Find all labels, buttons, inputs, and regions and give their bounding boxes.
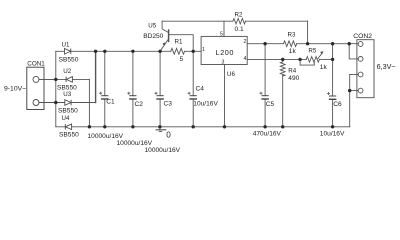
junction R4 minus rail [281,125,284,128]
svg-text:C6: C6 [333,101,342,108]
svg-text:U3: U3 [63,91,71,98]
wire L200 pin4 row (to R5) [247,58,306,60]
wire main rail R1 to L200 pin 1 [185,50,201,52]
capacitor C5 top leg [264,44,266,96]
wire U2 row (CON1 pin 1 to diode to corner) [39,78,89,80]
resistor R1 zigzag [171,48,185,54]
diode U1 triangle and bar [65,49,71,55]
junction C3 emitter main rail [158,50,161,53]
resistor R4 zigzag vertical [280,62,285,76]
junction CON2 pin4 branch [348,89,351,92]
svg-text:BD250: BD250 [143,33,163,40]
wire output vertical through C6 top [332,44,334,96]
connector CON2 pin 2 circle [358,57,363,62]
capacitor C1 plates [101,95,108,97]
junction C5 output row [263,42,266,45]
svg-text:3: 3 [222,60,225,66]
svg-text:U6: U6 [227,71,235,78]
ground stub below rail [159,127,161,130]
wire CON2 lower branch vertical to minus rail [349,75,351,127]
svg-text:R2: R2 [235,12,243,19]
svg-text:1k: 1k [320,64,328,71]
diode U3 triangle and bar [65,100,71,106]
svg-text:R1: R1 [175,38,183,45]
junction pin3 minus rail [223,125,226,128]
junction R4 pin4 row [281,58,284,61]
svg-text:U1: U1 [62,42,70,49]
wire vertical drop from top rail to output node [307,21,309,44]
capacitor C2 plates [129,95,136,97]
capacitor C3 top leg [159,51,161,95]
svg-text:CON2: CON2 [353,33,372,40]
svg-text:10u/16V: 10u/16V [320,131,345,138]
svg-text:2: 2 [244,39,247,45]
junction C2 minus rail [131,125,134,128]
wire R5 right terminal to output vertical [319,58,332,60]
IC U6 L200 box [201,36,247,64]
wire left AC vertical [55,51,57,126]
wire CON2 pin4 stub [350,90,359,92]
capacitor C2 top leg [132,51,134,95]
svg-text:470u/16V: 470u/16V [253,131,282,138]
capacitor C1 bottom leg [104,99,106,127]
junction top rail drop output row [306,42,309,45]
svg-text:R3: R3 [288,32,296,39]
capacitor C5 bottom leg [264,99,266,127]
svg-text:1k: 1k [289,48,297,55]
svg-text:4: 4 [244,56,247,62]
svg-text:C1: C1 [106,98,115,105]
wire R5 wiper arrow diagonal [318,53,323,59]
wire main input rail (diode bridge output to R1) [56,50,171,52]
svg-text:5: 5 [180,56,184,63]
capacitor C4 bottom leg [192,99,194,127]
junction R5 wiper loop pin4 row [298,58,301,61]
connector CON2 box [357,40,374,98]
resistor R4 top leg [282,59,284,61]
connector CON2 pin 4 circle [358,88,363,93]
svg-text:SB550: SB550 [59,131,79,138]
ground symbol 0 [156,130,167,132]
capacitor C1 plus sign [99,92,102,95]
transistor U5 emitter arrowhead [163,42,166,46]
connector CON1 pin 1 circle [33,76,39,82]
capacitor C3 plates [157,95,164,97]
junction C4 minus rail [192,125,195,128]
svg-text:5: 5 [220,32,223,38]
wire CON2 pin1-pin2 tie branch [349,44,358,59]
capacitor C2 plus sign [127,92,130,95]
svg-text:10000u/16V: 10000u/16V [145,147,181,154]
potentiometer R5 wiper arrowhead [320,51,323,54]
svg-text:SB550: SB550 [58,108,78,115]
svg-text:C2: C2 [135,101,144,108]
svg-text:490: 490 [288,75,299,82]
svg-text:C4: C4 [196,86,205,93]
svg-text:10u/16V: 10u/16V [193,100,218,107]
svg-text:R4: R4 [288,67,296,74]
diode U4 triangle and bar (points left) [66,124,72,130]
junction U2 minus rail [88,125,91,128]
wire output row R3 to CON2 pin 1 [297,43,359,45]
resistor R2 zigzag [233,19,246,24]
junction ground minus rail [158,125,161,128]
capacitor C2 bottom leg [132,99,134,127]
capacitor C1 top leg [104,51,106,95]
capacitor C5 plates [262,95,269,97]
resistor R3 zigzag [284,41,297,47]
capacitor C4 plus sign [188,92,191,95]
wire U3 row (CON1 pin 2 to diode to plus vertical) [39,102,96,104]
transistor U5 base wire to R1 right node [169,35,193,52]
junction C5 minus rail [263,125,266,128]
capacitor C3 plus sign [155,92,158,95]
junction output vertical output row [331,42,334,45]
junction AC vertical / U3 row [54,101,57,104]
svg-text:1: 1 [202,47,205,53]
capacitor C3 bottom leg [159,99,161,127]
connector CON1 pin 2 circle [33,100,39,106]
junction C1 minus rail [103,125,106,128]
wire top rail right segment (R2 to output drop) [246,20,308,22]
svg-text:R5: R5 [308,47,316,54]
wire CON2 pin3 stub [350,74,359,76]
svg-text:6,3V~: 6,3V~ [377,62,396,71]
wire R5 wiper loop [300,59,314,65]
svg-text:0.1: 0.1 [235,26,244,33]
capacitor C6 plus sign [327,92,330,95]
wire L200 pin2 output row (to R3) [247,43,283,45]
wire bottom minus rail [56,125,350,128]
wire plus node vertical (U3 cathode to main rail) [95,51,97,102]
junction R1 base C4 node [192,50,195,53]
junction CON2 branch output row [348,42,351,45]
connector CON2 pin 3 circle [358,72,363,77]
svg-text:9-10V~: 9-10V~ [4,86,26,93]
capacitor C4 plates [190,95,197,97]
connector CON1 box [27,67,44,109]
transistor U5 emitter lead [160,39,168,51]
transistor Q U5 collector lead [162,21,168,32]
svg-text:C3: C3 [164,101,173,108]
junction AC vertical / U2 row [54,78,57,81]
connector CON2 pin 1 circle [358,42,363,47]
capacitor C6 plates [329,95,336,97]
capacitor C4 top leg [192,51,194,95]
wire U2 anode vertical to minus rail [88,79,90,126]
transistor U5 base bar [168,30,170,41]
svg-text:U4: U4 [62,115,70,122]
svg-text:SB550: SB550 [59,56,79,63]
resistor R5 zigzag [306,57,319,63]
junction plus node on main rail [94,50,97,53]
wire CON1 pin2 stub [39,102,56,104]
wire pin5 vertical (top rail to L200 pin 5) [223,21,225,36]
junction R5 output vertical pin4 row [331,58,334,61]
capacitor C6 bottom leg [332,99,334,127]
wire top rail left segment (collector to R2) [162,20,233,22]
svg-text:CON1: CON1 [27,61,45,68]
capacitor C5 plus sign [260,92,263,95]
junction C6 minus rail [331,125,334,128]
diode U2 triangle and bar (points left) [66,77,72,83]
svg-text:0: 0 [166,131,171,140]
svg-text:C5: C5 [266,101,275,108]
svg-text:U5: U5 [148,23,156,30]
junction C2 main rail [131,50,134,53]
svg-text:U2: U2 [63,68,71,75]
wire CON1 pin1 stub [39,78,56,80]
wire L200 pin3 vertical to minus rail [224,65,226,127]
junction C1 main rail [103,50,106,53]
resistor R4 bottom leg [282,75,284,126]
svg-text:10000u/16V: 10000u/16V [117,140,153,147]
svg-text:L200: L200 [216,48,234,57]
